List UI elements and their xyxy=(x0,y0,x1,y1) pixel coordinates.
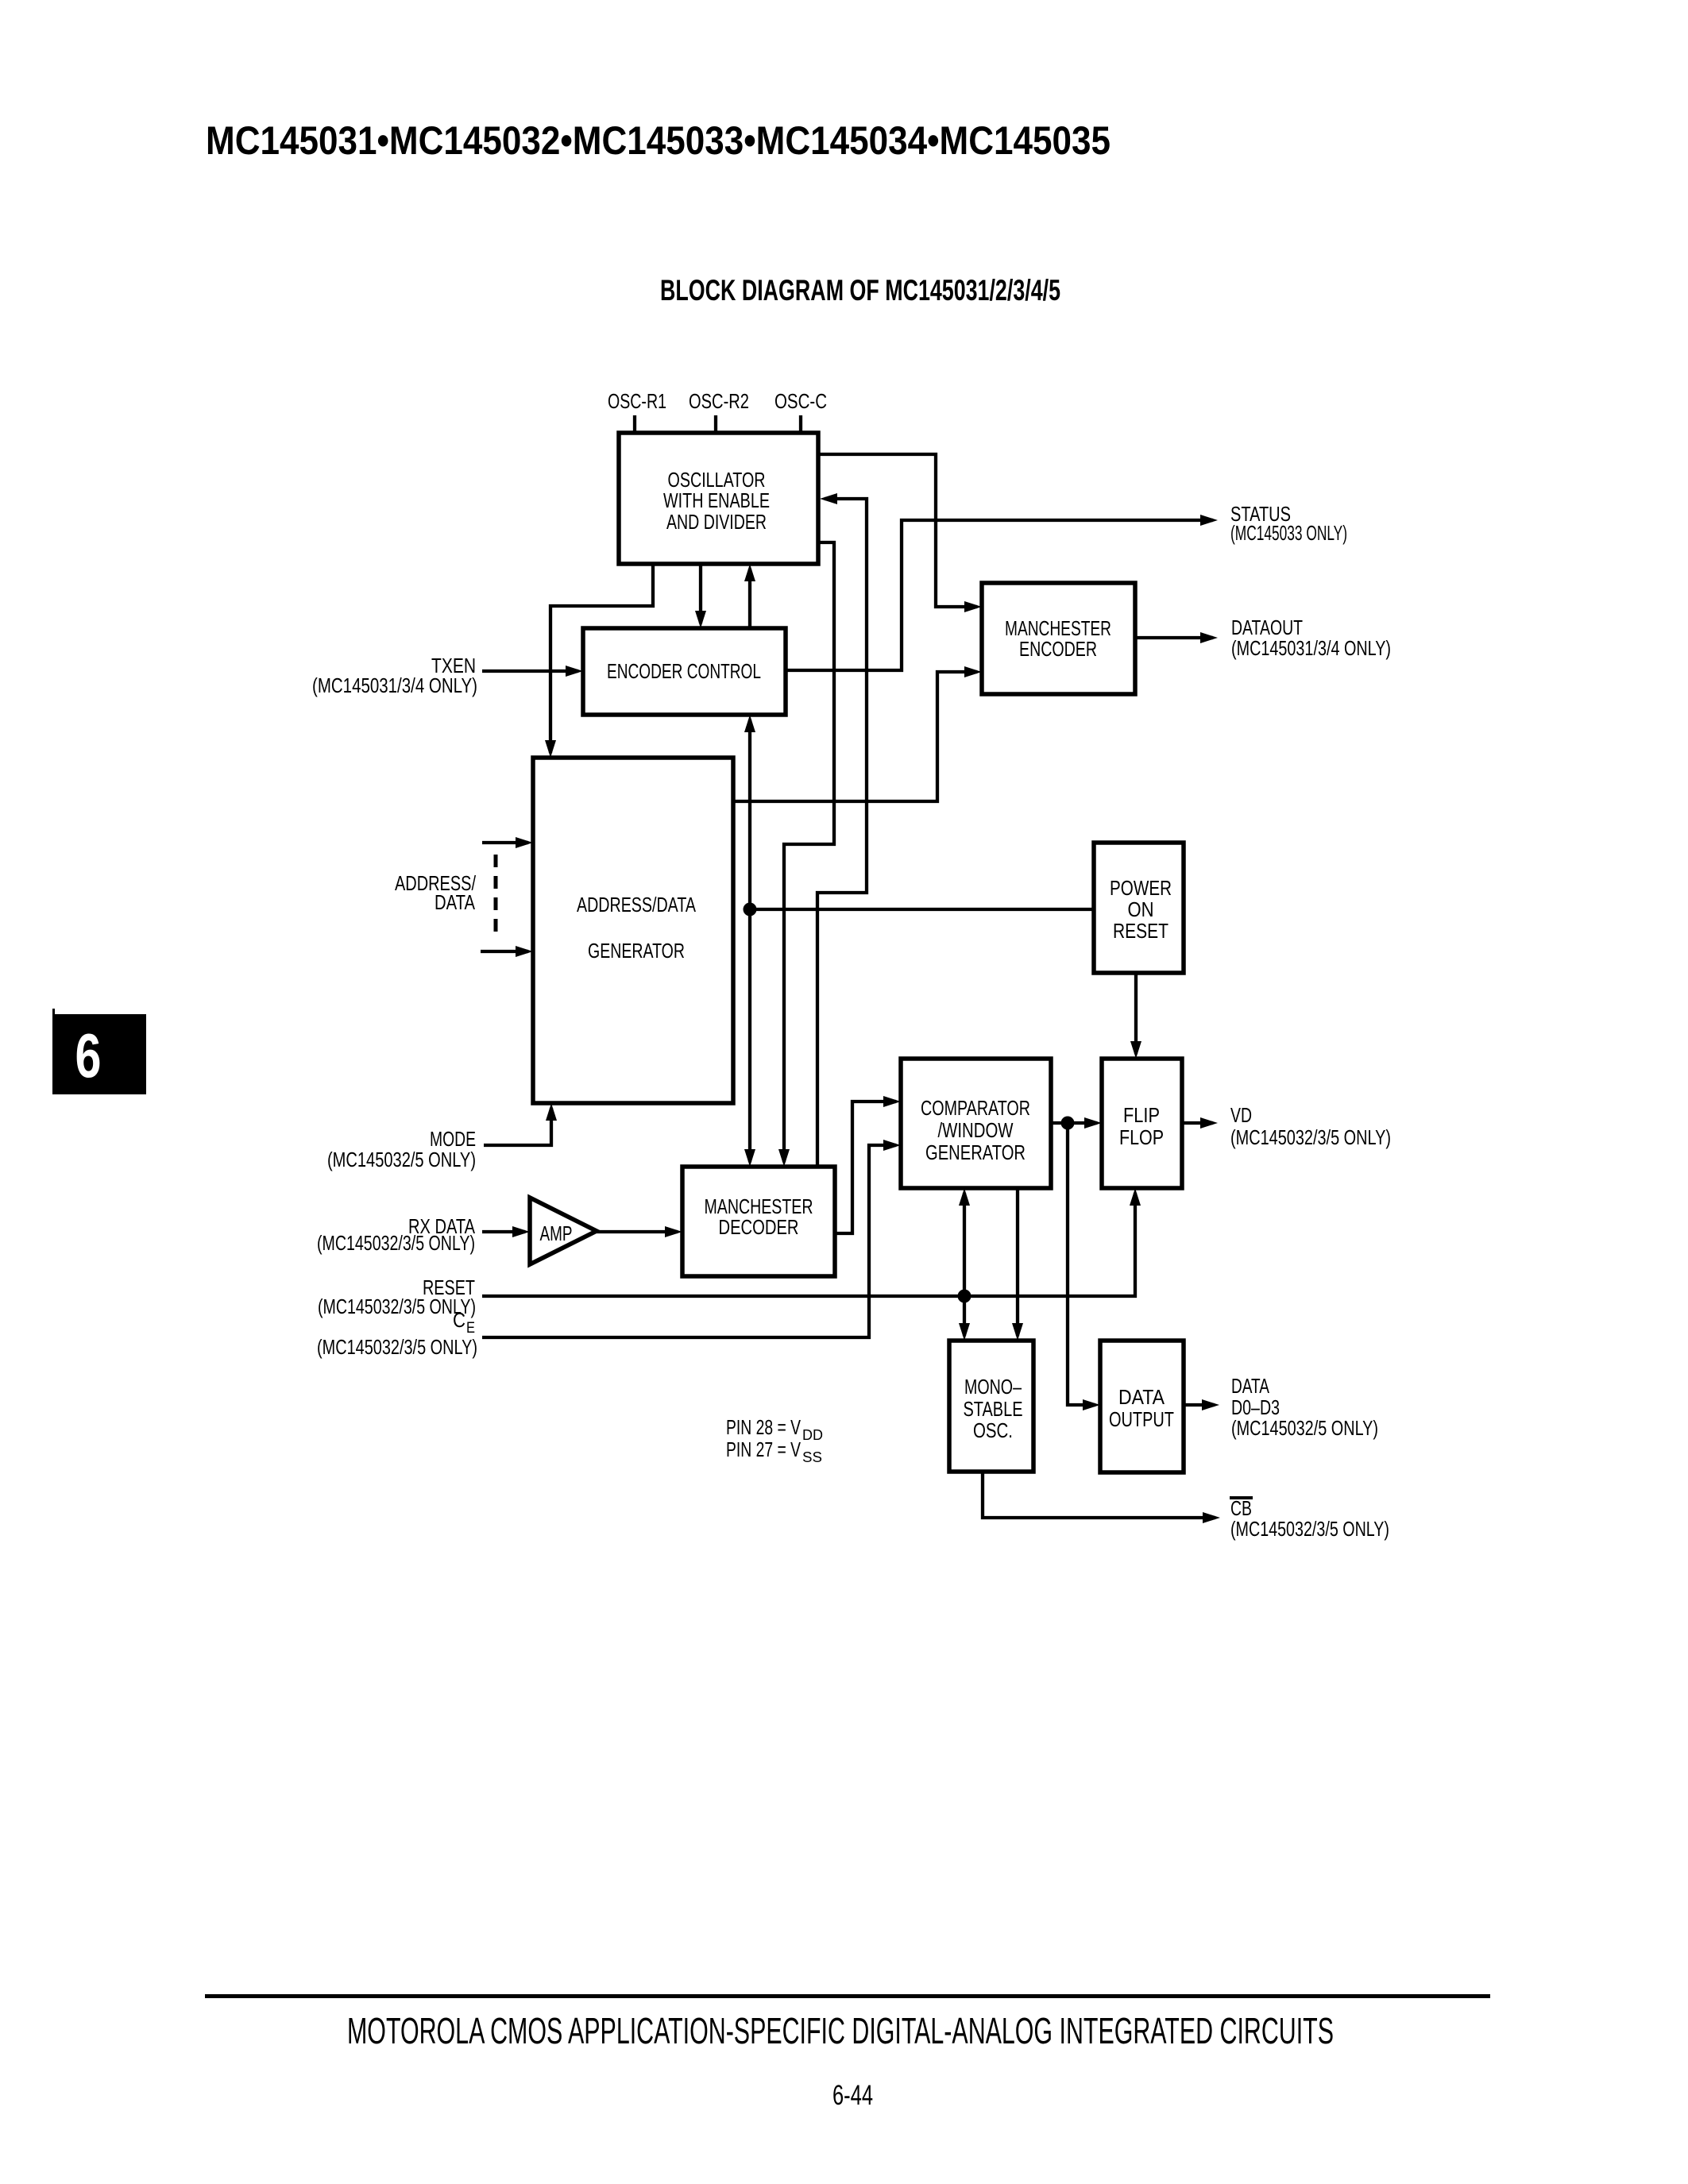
wire OSC-C pin stub xyxy=(799,415,802,433)
wire reset branch down to monostable top xyxy=(963,1296,966,1336)
svg-text:POWER: POWER xyxy=(1110,876,1172,900)
block U5 power on reset xyxy=(1094,843,1184,973)
junction node at generator/POR line xyxy=(744,903,757,916)
svg-text:GENERATOR: GENERATOR xyxy=(588,939,685,963)
svg-text:(MC145032/5 ONLY): (MC145032/5 ONLY) xyxy=(1231,1416,1378,1440)
wire oscillator out to manchester encoder input 1 xyxy=(818,454,977,607)
svg-text:MC145031•MC145032•MC145033•MC1: MC145031•MC145032•MC145033•MC145034•MC14… xyxy=(206,118,1111,163)
wire OSC-R2 pin stub xyxy=(714,415,717,433)
svg-text:PIN 28 = V: PIN 28 = V xyxy=(726,1415,801,1439)
wire comparator out branch to data output xyxy=(1068,1123,1095,1405)
svg-text:COMPARATOR: COMPARATOR xyxy=(921,1096,1030,1120)
svg-text:VD: VD xyxy=(1230,1103,1252,1127)
wire comparator bottom to monostable top xyxy=(1016,1188,1019,1336)
svg-text:RESET: RESET xyxy=(1113,919,1168,943)
block U8 manchester decoder xyxy=(682,1167,835,1276)
svg-text:ON: ON xyxy=(1128,897,1154,921)
svg-text:FLIP: FLIP xyxy=(1123,1103,1160,1127)
svg-text:C: C xyxy=(453,1308,465,1332)
wire RESET input to flip flop bottom xyxy=(482,1193,1135,1296)
svg-text:DD: DD xyxy=(802,1427,823,1443)
wire data output to DATA D0-D3 xyxy=(1184,1403,1215,1406)
wire oscillator bottom to address/data generator top xyxy=(550,564,653,753)
svg-text:BLOCK DIAGRAM OF MC145031/2/3/: BLOCK DIAGRAM OF MC145031/2/3/4/5 xyxy=(660,274,1060,307)
svg-text:FLOP: FLOP xyxy=(1119,1125,1164,1149)
wire oscillator out to manchester decoder (clock) xyxy=(784,542,834,1162)
svg-text:(MC145032/3/5 ONLY): (MC145032/3/5 ONLY) xyxy=(1230,1125,1391,1149)
svg-text:STABLE: STABLE xyxy=(964,1397,1023,1421)
wire flip flop out to VD xyxy=(1182,1121,1213,1125)
block U7 flip flop xyxy=(1102,1059,1182,1188)
svg-text:OSC.: OSC. xyxy=(973,1418,1013,1442)
svg-text:ENCODER: ENCODER xyxy=(1019,637,1097,661)
wire oscillator to encoder control (down arrow) xyxy=(699,564,702,623)
svg-text:/WINDOW: /WINDOW xyxy=(938,1118,1014,1142)
svg-text:MOTOROLA CMOS APPLICATION-SPEC: MOTOROLA CMOS APPLICATION-SPECIFIC DIGIT… xyxy=(347,2010,1334,2051)
block U4 address/data generator xyxy=(533,758,733,1103)
svg-text:DATA: DATA xyxy=(1118,1385,1165,1409)
svg-text:ADDRESS/DATA: ADDRESS/DATA xyxy=(577,893,696,916)
wire manchester encoder out to DATAOUT xyxy=(1135,636,1213,639)
svg-text:E: E xyxy=(466,1320,475,1337)
amplifier A1 xyxy=(530,1198,597,1264)
svg-text:(MC145032/5 ONLY): (MC145032/5 ONLY) xyxy=(327,1148,476,1171)
svg-text:GENERATOR: GENERATOR xyxy=(925,1140,1026,1164)
svg-text:AMP: AMP xyxy=(540,1221,573,1245)
svg-text:6: 6 xyxy=(75,1021,102,1090)
wire ADDRESS/DATA input 2 xyxy=(481,950,528,953)
svg-text:OSC-C: OSC-C xyxy=(774,389,827,413)
block U3 manchester encoder xyxy=(982,583,1135,694)
net label CB (active low) xyxy=(1230,1496,1253,1499)
block U6 comparator/window generator xyxy=(901,1059,1051,1188)
block U1 oscillator with enable and divider xyxy=(619,433,818,564)
svg-text:6-44: 6-44 xyxy=(832,2080,873,2111)
wire RX DATA to amp xyxy=(482,1230,525,1233)
junction node on RESET line xyxy=(958,1290,971,1303)
wire ADDRESS/DATA dashed ellipsis xyxy=(494,855,498,932)
svg-text:OSC-R1: OSC-R1 xyxy=(608,389,666,413)
wire monostable out to CB xyxy=(983,1472,1215,1518)
section tab 6 xyxy=(52,1009,55,1094)
svg-text:ENCODER CONTROL: ENCODER CONTROL xyxy=(607,659,761,683)
block U10 data output xyxy=(1100,1341,1184,1472)
svg-text:(MC145032/3/5 ONLY): (MC145032/3/5 ONLY) xyxy=(317,1231,475,1255)
svg-text:(MC145031/3/4 ONLY): (MC145031/3/4 ONLY) xyxy=(1231,636,1391,660)
block U2 encoder control xyxy=(583,628,786,715)
svg-text:OSC-R2: OSC-R2 xyxy=(689,389,749,413)
wire encoder control out to STATUS xyxy=(786,520,1213,670)
wire branch to power on reset xyxy=(750,908,1094,911)
svg-text:(MC145032/3/5 ONLY): (MC145032/3/5 ONLY) xyxy=(1230,1517,1389,1541)
wire power on reset to flip flop xyxy=(1134,973,1138,1054)
svg-text:SS: SS xyxy=(802,1449,822,1465)
svg-text:DECODER: DECODER xyxy=(719,1215,799,1239)
wire encoder control to oscillator (up arrow) xyxy=(748,569,751,628)
svg-text:MONO–: MONO– xyxy=(964,1375,1022,1399)
wire MODE input xyxy=(484,1108,551,1145)
wire decoder feedback to oscillator enable xyxy=(817,499,867,1167)
wire amp to manchester decoder xyxy=(597,1230,678,1233)
svg-text:AND DIVIDER: AND DIVIDER xyxy=(666,510,767,534)
block U9 monostable oscillator xyxy=(949,1341,1033,1472)
wire reset branch up to comparator bottom xyxy=(963,1193,966,1296)
wire encoder control bottom / decoder top shared line xyxy=(748,720,751,1162)
wire decoder out to comparator input 1 xyxy=(835,1102,896,1233)
svg-text:DATA: DATA xyxy=(435,890,476,914)
wire TXEN input xyxy=(482,669,578,673)
svg-text:(MC145033 ONLY): (MC145033 ONLY) xyxy=(1230,521,1347,545)
wire OSC-R1 pin stub xyxy=(633,415,636,433)
wire comparator out to flip flop xyxy=(1051,1121,1097,1125)
footer rule xyxy=(205,1994,1490,1998)
svg-text:(MC145031/3/4 ONLY): (MC145031/3/4 ONLY) xyxy=(312,673,477,697)
svg-text:PIN 27 = V: PIN 27 = V xyxy=(726,1437,801,1461)
wire generator out to manchester encoder input 2 xyxy=(733,672,977,801)
svg-text:WITH ENABLE: WITH ENABLE xyxy=(663,488,770,512)
svg-text:OUTPUT: OUTPUT xyxy=(1109,1407,1174,1431)
junction node comparator/flipflop xyxy=(1061,1117,1075,1130)
svg-text:(MC145032/3/5 ONLY): (MC145032/3/5 ONLY) xyxy=(317,1335,477,1359)
wire ADDRESS/DATA input 1 xyxy=(482,841,528,844)
svg-text:DATA: DATA xyxy=(1231,1374,1269,1398)
wire CE input to comparator input 2 xyxy=(482,1145,896,1337)
